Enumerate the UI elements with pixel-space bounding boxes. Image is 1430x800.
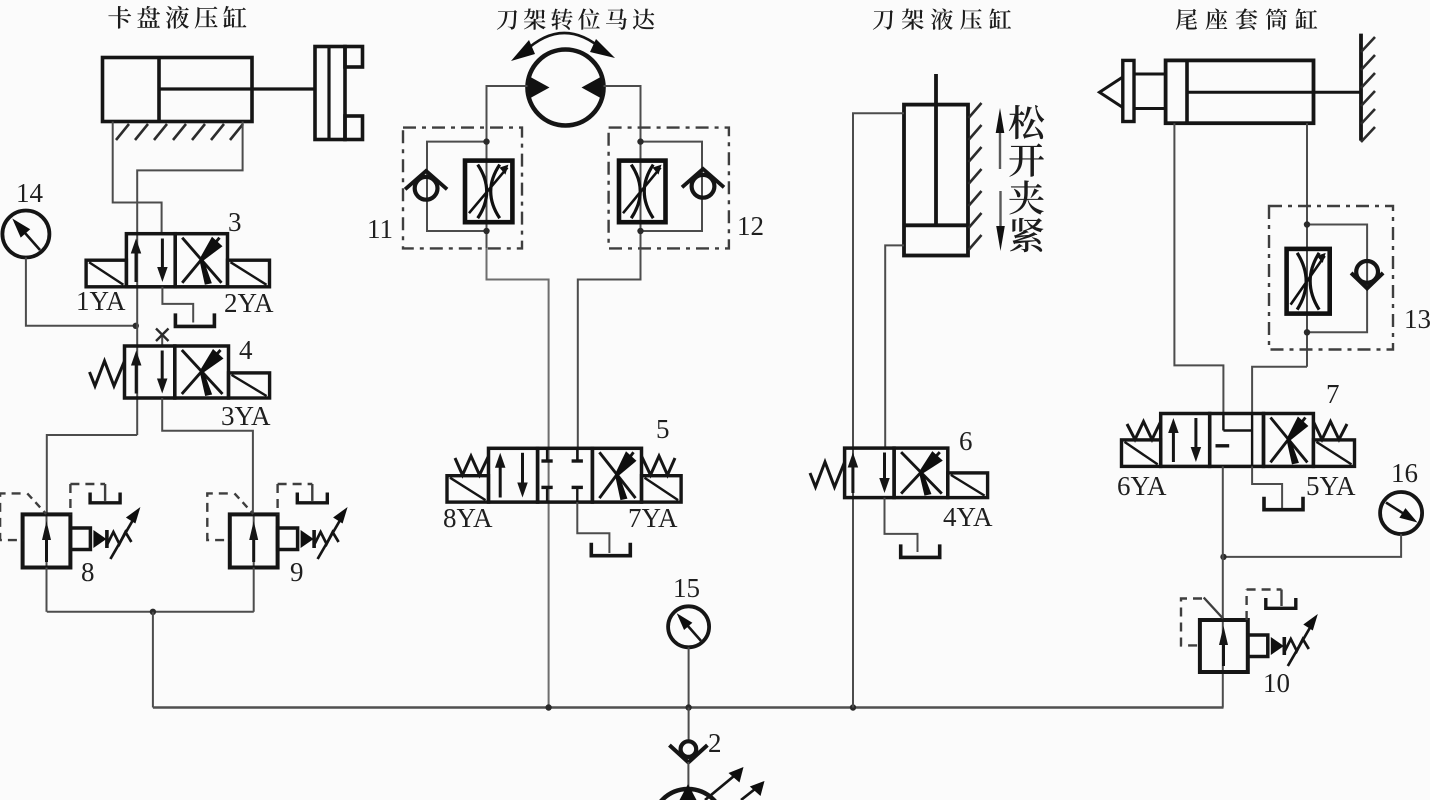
fixed wall with hatching bbox=[1359, 34, 1363, 141]
solenoid 7YA of valve 5 bbox=[642, 476, 682, 502]
svg-text:7YA: 7YA bbox=[628, 503, 678, 533]
svg-text:4: 4 bbox=[239, 335, 253, 365]
node: assembly 12 top bbox=[637, 138, 643, 144]
bypass loop wire of assembly 13 bbox=[1307, 225, 1367, 333]
pump 1 (variable displacement, partially cut off) bbox=[652, 789, 724, 800]
adjustable throttle of assembly 11 bbox=[465, 161, 512, 223]
return spring right of valve 7 bbox=[1313, 422, 1347, 440]
wire: assembly 11 to valve 5 / P riser through valve 5 to bus bbox=[487, 248, 549, 707]
svg-text:1YA: 1YA bbox=[76, 286, 126, 316]
pressure reducing valve 10 body bbox=[1200, 620, 1248, 672]
node: assembly 13 top bbox=[1304, 221, 1310, 227]
wire: gauge 14 to node below valve 3 bbox=[26, 258, 136, 326]
main pressure bus bbox=[153, 706, 1224, 709]
yoke link bottom bbox=[1134, 107, 1166, 110]
cylinder: chuck hydraulic cylinder body bbox=[103, 58, 253, 122]
clamp arrow (down) annotation bbox=[999, 191, 1001, 228]
node: bus x pump riser bbox=[685, 704, 691, 710]
drain and tank of valve 9 bbox=[276, 484, 278, 514]
tank symbol under valve 7 bbox=[1264, 497, 1303, 510]
wire: gauge 15 to main bus bbox=[688, 647, 690, 707]
pressure reducing valve 8 body bbox=[46, 514, 48, 567]
svg-text:7: 7 bbox=[1326, 379, 1340, 409]
junction node below valve 3 bbox=[133, 323, 139, 329]
piston of chuck cylinder bbox=[157, 58, 161, 122]
wire: tailstock cylinder right port down through assembly 13 bbox=[1306, 123, 1308, 367]
node: bus x valve5 riser bbox=[545, 704, 551, 710]
junction node above valve 10 bbox=[1220, 554, 1226, 560]
return spring of valve 4 bbox=[90, 361, 125, 386]
wire: motor left port down through assembly 11 bbox=[487, 86, 528, 248]
pilot dashed box of valve 10 bbox=[1181, 599, 1202, 646]
one-way throttle assembly 13 enclosure (dash-dot) bbox=[1269, 206, 1393, 350]
return spring of valve 6 bbox=[810, 462, 845, 487]
wire: chuck cylinder left port to valve 3 port B bbox=[113, 122, 162, 234]
wire: check valve 2 to pump 1 bbox=[687, 762, 689, 792]
solenoid valve 6 (4/2, spring return, solenoid 4YA) left box bbox=[845, 448, 895, 498]
solenoid 1YA of valve 3 bbox=[86, 260, 126, 287]
solenoid 4YA of valve 6 bbox=[948, 473, 988, 498]
svg-text:11: 11 bbox=[367, 214, 393, 244]
svg-text:12: 12 bbox=[737, 211, 764, 241]
tank symbol under valve 3 bbox=[175, 313, 214, 326]
tank symbol under valve 6 bbox=[901, 544, 940, 557]
pilot dashed box of valve 9 bbox=[207, 493, 230, 540]
hydraulic motor (tool-post indexing motor) bbox=[528, 50, 604, 126]
svg-text:10: 10 bbox=[1263, 668, 1290, 698]
valve 6 right position box (crossed) bbox=[894, 448, 948, 498]
svg-text:16: 16 bbox=[1391, 458, 1418, 488]
valve 4 right position box (crossed) bbox=[175, 346, 229, 398]
wire: riser through valves 3 and 4 (A line) bbox=[136, 234, 138, 435]
pressure gauge 14 bbox=[2, 211, 49, 258]
pressure reducing valve 9 body bbox=[253, 514, 255, 567]
pressure gauge 16 bbox=[1380, 492, 1422, 534]
wire: low bus riser to main pressure bus bbox=[152, 612, 154, 708]
adjustable throttle of assembly 13 bbox=[1287, 249, 1330, 314]
wire: valve 7 P port down through valve 10 to bus bbox=[1222, 466, 1224, 707]
solenoid 5YA of valve 7 bbox=[1313, 440, 1354, 467]
wire: low bus between valves 8 and 9 bbox=[47, 611, 254, 613]
piston rod of tool-post cylinder bbox=[934, 74, 938, 225]
adjust assembly of valve 10 bbox=[1248, 635, 1268, 657]
plugged port mark x above valve 4 bbox=[161, 335, 163, 347]
piston rod of chuck cylinder bbox=[159, 87, 316, 90]
one-way throttle assembly 11 enclosure (dash-dot) bbox=[403, 128, 522, 249]
wire: bus to check valve 2 bbox=[688, 708, 690, 742]
wire: tool-post cylinder top port to valve 6 / riser to bus bbox=[853, 113, 904, 707]
solenoid 8YA of valve 5 bbox=[447, 476, 489, 502]
wire: chuck cylinder right port to valve 3 port A bbox=[137, 122, 242, 234]
adjust assembly of valve 8 bbox=[70, 528, 90, 550]
svg-text:3: 3 bbox=[228, 207, 242, 237]
svg-text:4YA: 4YA bbox=[943, 502, 993, 532]
node: bus x valve6 riser bbox=[850, 704, 856, 710]
tank symbol under valve 5 bbox=[591, 543, 630, 556]
adjust assembly of valve 9 bbox=[278, 528, 298, 550]
piston rod of tailstock cylinder bbox=[1187, 91, 1361, 94]
pilot dashed box of valve 8 bbox=[0, 493, 23, 540]
svg-text:15: 15 bbox=[673, 573, 700, 603]
valve 3 right position box (crossed) bbox=[175, 234, 227, 287]
solenoid valve 7 (4/3, 6YA/5YA) left position box bbox=[1161, 414, 1210, 467]
piston of tailstock cylinder bbox=[1185, 60, 1189, 123]
valve 7 centre position box bbox=[1210, 414, 1264, 467]
node: assembly 11 bottom bbox=[483, 228, 489, 234]
return spring left of valve 5 bbox=[455, 456, 489, 475]
check valve of assembly 12 bbox=[692, 175, 715, 198]
valve 7 right position box (crossed) bbox=[1264, 414, 1314, 467]
svg-text:2YA: 2YA bbox=[224, 288, 274, 318]
release arrow (up) annotation bbox=[999, 131, 1001, 169]
title: tool-post hydraulic cylinder (Chinese) bbox=[873, 10, 893, 30]
solenoid valve 4 (4/2, spring return, solenoid 3YA) left box bbox=[125, 346, 175, 398]
node: assembly 12 bottom bbox=[637, 228, 643, 234]
drain line of valve 6 to tank bbox=[885, 498, 918, 552]
cylinder: tool-post hydraulic cylinder body bbox=[904, 105, 968, 256]
svg-text:8: 8 bbox=[81, 557, 95, 587]
wire: valve 4 port to relief valve 8 branch bbox=[47, 435, 137, 514]
svg-text:6YA: 6YA bbox=[1117, 471, 1167, 501]
piston of tool-post cylinder bbox=[904, 223, 968, 227]
yoke link top bbox=[1134, 73, 1166, 76]
wire through valve 8 to low bus bbox=[46, 568, 48, 612]
svg-text:2: 2 bbox=[708, 728, 722, 758]
vertical text release/clamp (Chinese) bbox=[1009, 105, 1044, 139]
return spring right of valve 5 bbox=[642, 456, 676, 475]
wire: gauge 16 to node above valve 10 bbox=[1224, 534, 1402, 557]
svg-text:13: 13 bbox=[1404, 304, 1430, 334]
wire: motor right port down through assembly 12 bbox=[604, 86, 641, 248]
bypass loop wire of assembly 11 bbox=[427, 142, 487, 231]
title: chuck hydraulic cylinder (Chinese) bbox=[108, 6, 131, 29]
svg-text:14: 14 bbox=[16, 178, 44, 208]
check valve of assembly 11 bbox=[415, 177, 438, 200]
svg-text:6: 6 bbox=[959, 426, 973, 456]
hatching right of tool-post cylinder bbox=[969, 103, 982, 118]
cylinder: tailstock sleeve cylinder body bbox=[1166, 60, 1314, 123]
node: assembly 11 top bbox=[483, 138, 489, 144]
return spring left of valve 7 bbox=[1127, 422, 1161, 440]
solenoid valve 5 (4/3, 8YA/7YA) left position box bbox=[489, 448, 538, 502]
wire: valve 4 port to relief valve 9 branch bbox=[162, 398, 253, 514]
wire: tailstock cylinder left port down to valve 7 bbox=[1174, 123, 1223, 413]
chuck bottom jaw bbox=[345, 116, 363, 140]
svg-text:5: 5 bbox=[656, 414, 670, 444]
svg-text:8YA: 8YA bbox=[443, 503, 493, 533]
valve 5 right position box (crossed) bbox=[592, 448, 641, 502]
chuck top jaw bbox=[345, 47, 363, 68]
chuck (workpiece clamp) plate bbox=[315, 47, 345, 140]
svg-text:3YA: 3YA bbox=[221, 401, 271, 431]
drain and tank of valve 8 bbox=[69, 484, 71, 514]
drain line of valve 5 to tank bbox=[577, 502, 609, 553]
drain line of valve 7 to tank bbox=[1252, 466, 1282, 508]
wire: tool-post cylinder bottom port to valve 6 bbox=[885, 245, 904, 448]
tailstock centre plate bbox=[1123, 60, 1134, 121]
drain line of valve 3 to tank bbox=[162, 287, 193, 323]
solenoid 3YA of valve 4 bbox=[229, 373, 270, 398]
title: tailstock sleeve cylinder (Chinese) bbox=[1176, 9, 1197, 30]
mounting hatching under chuck cylinder bbox=[116, 124, 129, 140]
wire: assembly 12 to valve 5 port bbox=[578, 248, 641, 461]
rotation arrow above motor bbox=[524, 33, 603, 52]
junction on low bus bbox=[150, 609, 156, 615]
valve 5 centre position box (all ports blocked) bbox=[538, 448, 593, 502]
svg-text:5YA: 5YA bbox=[1306, 471, 1356, 501]
wire through valve 9 to low bus bbox=[253, 568, 255, 612]
one-way throttle assembly 12 enclosure (dash-dot) bbox=[609, 128, 729, 249]
solenoid 2YA of valve 3 bbox=[228, 260, 270, 287]
check valve of assembly 13 bbox=[1356, 261, 1378, 283]
check valve 2 bbox=[681, 741, 697, 757]
title: tool-post indexing motor (Chinese) bbox=[497, 10, 517, 30]
drain and tank of valve 10 bbox=[1245, 590, 1247, 621]
tailstock centre cone bbox=[1100, 77, 1123, 108]
node: assembly 13 bottom bbox=[1304, 329, 1310, 335]
wire: assembly 13 to valve 7 port bbox=[1252, 367, 1307, 414]
bypass loop wire of assembly 12 bbox=[641, 142, 703, 231]
adjustable throttle of assembly 12 bbox=[619, 161, 666, 223]
solenoid valve 3 (4/2, solenoids 1YA/2YA) left position box bbox=[126, 234, 175, 287]
solenoid 6YA of valve 7 bbox=[1122, 440, 1161, 467]
pressure gauge 15 bbox=[668, 606, 709, 647]
svg-text:9: 9 bbox=[290, 557, 304, 587]
